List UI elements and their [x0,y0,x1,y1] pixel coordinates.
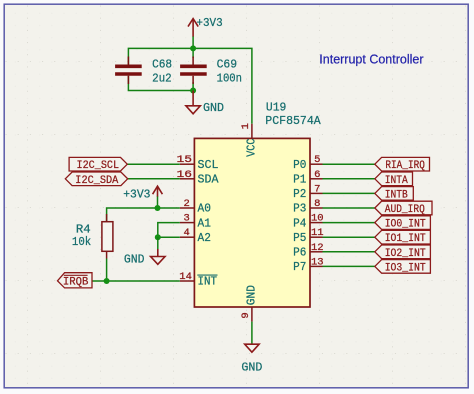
svg-text:7: 7 [314,183,320,195]
svg-text:5: 5 [314,154,320,166]
wire P2 to INTB [323,192,375,194]
svg-text:P0: P0 [293,158,306,172]
power +3V3 top [192,36,194,48]
junction bottom rail [190,88,196,94]
pin 1 VCC top [251,124,253,139]
svg-text:P3: P3 [293,202,306,216]
svg-text:3: 3 [183,213,189,225]
pin 6 P1 [310,178,323,180]
pin 12 P6 [310,251,323,253]
svg-text:PCF8574A: PCF8574A [265,114,321,128]
global label IO1_INT [375,230,431,245]
svg-text:IO0_INT: IO0_INT [385,219,426,231]
svg-text:A0: A0 [198,202,211,216]
pin 2 A0 [180,207,195,209]
svg-text:IO2_INT: IO2_INT [385,248,426,260]
pin 15 SCL [180,163,195,165]
svg-text:IO1_INT: IO1_INT [385,233,426,245]
global label IO3_INT [375,260,431,275]
wire P4 to IO0_INT [323,222,375,224]
svg-text:GND: GND [241,360,262,374]
IC U19 PCF8574A [194,138,310,307]
svg-text:P4: P4 [293,216,306,230]
svg-text:2u2: 2u2 [152,71,172,85]
wire P7 to IO3_INT [323,265,375,267]
global label AUD_IRQ [375,201,432,216]
pin 14 INT [180,280,195,282]
svg-text:P6: P6 [293,246,306,260]
svg-text:+3V3: +3V3 [123,188,150,202]
svg-text:VCC: VCC [244,139,258,157]
wire P0 to RIA_IRQ [323,163,375,165]
global label I2C_SCL [69,157,127,172]
wire SCL [127,163,180,165]
global label I2C_SDA [65,172,127,187]
svg-text:10: 10 [311,213,324,225]
svg-text:P1: P1 [293,173,306,187]
pin 7 P2 [310,192,323,194]
svg-text:GND: GND [244,285,258,305]
junction top rail [190,45,196,51]
capacitor C69 [180,57,207,85]
svg-text:12: 12 [311,242,324,254]
svg-text:I2C_SDA: I2C_SDA [75,175,118,187]
svg-text:SCL: SCL [198,158,219,172]
svg-text:P2: P2 [293,187,306,201]
svg-text:AUD_IRQ: AUD_IRQ [385,204,425,216]
svg-text:1: 1 [240,123,252,129]
svg-text:C68: C68 [152,58,172,72]
pin 11 P5 [310,236,323,238]
svg-text:P5: P5 [293,231,306,245]
pin 10 P4 [310,222,323,224]
svg-text:100n: 100n [217,71,242,85]
junction IRQB R4 [104,278,110,284]
wire P5 to IO1_INT [323,236,375,238]
capacitor C68 [115,57,142,85]
wire top rail C68-C69-VCC [128,48,252,123]
svg-text:INT: INT [198,275,218,289]
wire A1 to A2 column [158,223,180,238]
svg-text:9: 9 [240,312,252,318]
pin 4 A2 [180,236,195,238]
power +3V3 at A0 [157,196,159,208]
svg-text:A2: A2 [198,231,211,245]
wire GND pin to ground [251,322,253,345]
svg-text:GND: GND [203,101,224,115]
junction A2 [155,234,161,240]
wire C68 bottom rail [128,76,193,91]
global label IRQB [58,273,93,289]
wire C69 bottom stub [192,82,194,91]
global label IO0_INT [375,216,431,231]
global label INTB [375,187,414,202]
pin 5 P0 [310,163,323,165]
svg-text:10k: 10k [72,235,91,249]
global label RIA_IRQ [375,157,430,172]
wire P6 to IO2_INT [323,251,375,253]
svg-text:14: 14 [179,271,192,283]
pin 8 P3 [310,207,323,209]
ground symbol below C69 [186,91,200,114]
wire R4 bottom to IRQB row [106,259,108,282]
svg-text:2: 2 [183,198,189,210]
wire C69 top stub [192,48,194,58]
svg-text:RIA_IRQ: RIA_IRQ [385,160,425,172]
svg-text:INTA: INTA [385,175,408,187]
svg-text:IO3_INT: IO3_INT [385,262,426,274]
ground symbol at A2 [151,249,165,264]
resistor R4 [102,214,113,259]
wire P1 to INTA [323,178,375,180]
svg-text:INTB: INTB [385,189,408,201]
wire P3 to AUD_IRQ [323,207,375,209]
svg-text:GND: GND [124,253,145,267]
wire A2 junction down to ground [157,237,159,249]
global label IO2_INT [375,245,431,260]
svg-text:SDA: SDA [198,173,220,187]
svg-text:4: 4 [183,227,189,239]
svg-text:11: 11 [311,227,324,239]
svg-text:A1: A1 [198,216,211,230]
junction A0 +3V3 [155,205,161,211]
wire IRQB to INT pin [92,280,180,282]
pin 16 SDA [180,178,195,180]
svg-text:6: 6 [314,169,320,181]
svg-text:I2C_SCL: I2C_SCL [77,160,120,172]
pin 3 A1 [180,222,195,224]
svg-text:+3V3: +3V3 [196,16,222,30]
svg-text:C69: C69 [217,58,238,72]
svg-text:P7: P7 [293,260,306,274]
svg-text:8: 8 [314,198,320,210]
svg-text:Interrupt Controller: Interrupt Controller [319,53,423,67]
svg-text:13: 13 [311,256,324,268]
pin 13 P7 [310,265,323,267]
svg-text:U19: U19 [266,101,287,115]
pin 9 GND bottom [251,307,253,322]
ground symbol bottom [245,344,259,352]
wire A0 to R4 top corner [107,208,180,222]
global label INTA [375,172,413,187]
svg-text:IRQB: IRQB [63,277,89,289]
wire SDA [128,178,180,180]
wire A2 [158,236,180,238]
